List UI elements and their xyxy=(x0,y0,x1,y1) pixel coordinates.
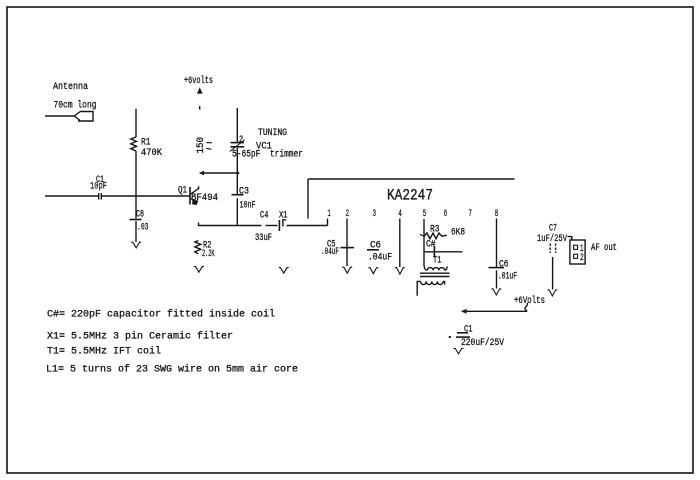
svg-text:1uF/25V: 1uF/25V xyxy=(537,233,567,245)
ground below C8 xyxy=(131,242,141,248)
capacitor C6 (pin 8 bypass) xyxy=(489,268,505,289)
svg-text:70cm long: 70cm long xyxy=(54,100,97,112)
capacitor C5 on pin 2 xyxy=(341,219,355,267)
svg-text:Q1: Q1 xyxy=(178,186,187,197)
wire: top feedback rail xyxy=(308,179,515,219)
wire: collector node to tank, with left arrowhead xyxy=(199,171,239,176)
ground below supply C1 xyxy=(454,348,464,353)
wire: pin 5 down xyxy=(423,219,425,266)
svg-text:220uF/25V: 220uF/25V xyxy=(461,337,504,349)
svg-text:3: 3 xyxy=(373,209,376,220)
+6V entry squiggle xyxy=(525,303,528,311)
antenna symbol xyxy=(45,112,93,122)
wire: C1 to Q1 base xyxy=(102,195,190,197)
svg-text:.04uF: .04uF xyxy=(321,247,339,258)
svg-text:2.2K: 2.2K xyxy=(202,249,215,260)
svg-text:KA2247: KA2247 xyxy=(387,187,433,205)
trimmer capacitor VC1 xyxy=(230,140,245,152)
wire: C4 to X1 xyxy=(266,225,278,227)
svg-text:1: 1 xyxy=(328,209,331,220)
svg-text:10pF: 10pF xyxy=(90,182,107,193)
transistor Q1 xyxy=(190,186,199,205)
svg-text:2: 2 xyxy=(580,253,584,264)
svg-text:C4: C4 xyxy=(260,211,269,222)
svg-text:T1= 5.5MHz IFT coil: T1= 5.5MHz IFT coil xyxy=(47,345,161,357)
svg-text:7: 7 xyxy=(469,209,472,220)
wire: below C7 xyxy=(552,257,554,290)
ground arrow below pin 4 xyxy=(395,268,405,275)
wire: X1 to pin 1 xyxy=(287,219,328,226)
transformer T1 primary xyxy=(424,265,447,270)
svg-text:R1: R1 xyxy=(141,138,151,149)
svg-text:150: 150 xyxy=(196,137,207,154)
svg-text:+6volts: +6volts xyxy=(184,75,213,87)
+6V supply rail wire xyxy=(461,309,527,314)
capacitor C# xyxy=(424,246,463,258)
wire fragment below +6V arrow xyxy=(199,106,201,110)
capacitor C6 on pin 3 xyxy=(367,249,379,251)
wire: antenna to C1 xyxy=(45,195,98,197)
svg-text:10nF: 10nF xyxy=(240,201,256,212)
ground arrow below pin 3 xyxy=(368,268,378,274)
ground below pin 8 capacitor xyxy=(491,289,501,295)
svg-text:T1: T1 xyxy=(433,256,442,267)
svg-text:X1= 5.5MHz 3 pin Ceramic filte: X1= 5.5MHz 3 pin Ceramic filter xyxy=(47,330,233,342)
capacitor C7 xyxy=(550,244,555,254)
capacitor C3 xyxy=(232,195,244,226)
wire: trimmer to C3 xyxy=(236,148,238,194)
svg-text:C3: C3 xyxy=(239,187,249,198)
svg-text:.01uF: .01uF xyxy=(498,272,517,283)
ground arrow below X1 xyxy=(279,268,289,274)
capacitor C1 supply xyxy=(449,333,470,338)
connector J1 AF out box xyxy=(568,237,586,264)
transformer T1 core xyxy=(420,273,450,276)
svg-text:AF out: AF out xyxy=(591,243,617,254)
svg-text:Antenna: Antenna xyxy=(53,82,88,93)
wire: base node to C8 xyxy=(135,196,137,219)
ground arrow below R2 xyxy=(194,267,204,273)
svg-text:2: 2 xyxy=(239,135,243,146)
ground arrow below pin 2 xyxy=(342,267,352,273)
svg-text:33uF: 33uF xyxy=(255,233,272,244)
svg-text:6K8: 6K8 xyxy=(451,228,465,239)
svg-text:.04uF: .04uF xyxy=(368,253,392,264)
emitter rail wire xyxy=(198,223,262,227)
capacitor C1 xyxy=(99,193,102,200)
resistor R1 xyxy=(131,109,137,196)
ceramic filter X1 xyxy=(279,220,286,231)
svg-text:C6: C6 xyxy=(499,260,509,271)
svg-text:C1: C1 xyxy=(464,325,473,336)
resistor R3 xyxy=(420,233,447,239)
svg-text:5-65pF trimmer: 5-65pF trimmer xyxy=(232,149,303,161)
transformer T1 secondary xyxy=(417,281,444,295)
inductor L1 (collector coil, rotated marking) xyxy=(196,137,212,154)
svg-text:C#= 220pF capacitor fitted ins: C#= 220pF capacitor fitted inside coil xyxy=(47,308,275,320)
svg-text:C7: C7 xyxy=(549,224,557,235)
+6V arrow symbol xyxy=(197,87,203,93)
ground below C7 branch xyxy=(547,290,557,296)
resistor R2 xyxy=(195,241,201,254)
svg-text:L1= 5 turns of 23 SWG wire on: L1= 5 turns of 23 SWG wire on 5mm air co… xyxy=(46,363,298,375)
capacitor C8 xyxy=(130,220,142,243)
svg-text:+6Volts: +6Volts xyxy=(514,295,545,307)
svg-text:470K: 470K xyxy=(141,148,162,159)
wire: tank column top xyxy=(236,108,238,142)
wire: pin 8 down xyxy=(496,219,498,268)
svg-text:6: 6 xyxy=(444,209,447,220)
svg-text:5: 5 xyxy=(423,209,426,220)
wire: pin 4 down xyxy=(399,219,401,268)
svg-text:.03: .03 xyxy=(137,223,149,234)
svg-text:TUNING: TUNING xyxy=(258,128,287,139)
